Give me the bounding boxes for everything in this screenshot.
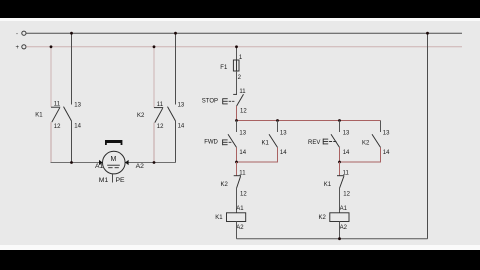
coil K2 [330, 213, 349, 222]
label FWD with actuator [204, 139, 233, 145]
svg-text:K1: K1 [215, 215, 223, 221]
svg-text:14: 14 [239, 150, 246, 156]
wire: minus bus to K2 NO contact [175, 33, 177, 104]
wire: coil K1 to bottom return bus [236, 222, 238, 239]
svg-text:11: 11 [54, 102, 61, 108]
svg-text:A1: A1 [236, 206, 244, 212]
junction on plus bus at K1 [50, 45, 53, 48]
junction bottom bus / coil K2 [338, 237, 341, 240]
wire: K1 interlock to coil K2 [339, 188, 341, 213]
wire: fuse to STOP button [236, 71, 238, 94]
junction on plus bus at K2 [153, 45, 156, 48]
contactor K2 power NC contact 11-12 [154, 102, 164, 130]
svg-text:STOP: STOP [202, 99, 218, 105]
positive supply terminal [16, 45, 27, 51]
coil K1 [227, 213, 246, 222]
wire: STOP to control bus [236, 106, 238, 121]
label REV with actuator [308, 139, 336, 146]
wire: K2 NO contact down [175, 121, 177, 163]
contactor K1 power NC contact 11-12 [51, 102, 61, 130]
svg-text:REV: REV [308, 140, 320, 146]
svg-text:K2: K2 [221, 182, 229, 188]
wire: plus bus to fuse F1 [236, 47, 238, 60]
wire: K1 aux down and left to FWD node [237, 148, 278, 163]
wire: K1 NC contact to motor A1 line [50, 122, 52, 162]
svg-text:K1: K1 [35, 113, 43, 119]
svg-text:12: 12 [240, 108, 247, 114]
svg-text:13: 13 [343, 130, 350, 136]
wire: motor A1 horizontal [51, 162, 102, 164]
svg-text:K1: K1 [324, 182, 332, 188]
motor M1 [103, 151, 126, 174]
top letterbox bar [0, 0, 480, 18]
svg-text:A2: A2 [340, 225, 348, 231]
K2 interlock NC contact 11-12 [234, 171, 248, 198]
svg-text:-: - [16, 32, 18, 38]
svg-text:K1: K1 [262, 140, 270, 146]
contactor K2 power NO contact 13-14 [168, 102, 185, 129]
junction FWD/K1aux node [235, 161, 238, 164]
fuse F1 [233, 60, 239, 71]
wire: REV to lower node [339, 148, 341, 163]
junction control bus / K1 aux [276, 119, 279, 122]
svg-text:FWD: FWD [204, 140, 218, 146]
wire: K2 interlock to coil K1 [236, 188, 238, 213]
junction A2/K2-NC [153, 161, 156, 164]
K1 interlock NC contact 11-12 [337, 171, 351, 198]
svg-text:PE: PE [116, 177, 126, 184]
svg-text:14: 14 [74, 124, 81, 130]
positive bus wire [26, 46, 462, 48]
svg-text:K2: K2 [137, 113, 145, 119]
K1 aux NO contact 13-14 [269, 121, 287, 156]
svg-text:14: 14 [280, 150, 287, 156]
svg-text:A1: A1 [340, 206, 348, 212]
junction on plus bus at control column [235, 45, 238, 48]
K2 aux NO contact 13-14 [372, 121, 390, 156]
bottom letterbox bar [0, 250, 480, 270]
svg-text:M1: M1 [99, 177, 109, 184]
svg-text:14: 14 [178, 124, 185, 130]
FWD pushbutton NO 13-14 [228, 121, 247, 156]
wire: REV node to K1 interlock [339, 162, 341, 176]
svg-text:11: 11 [157, 102, 164, 108]
wire: K2 NC contact to motor A2 line [153, 123, 155, 163]
svg-text:+: + [16, 45, 20, 51]
junction REV/K2aux node [338, 161, 341, 164]
junction control bus / STOP [235, 119, 238, 122]
wire: K1 NO contact to motor A1 line [71, 121, 73, 163]
terminal arrow A2 [125, 160, 129, 165]
svg-text:12: 12 [157, 124, 164, 130]
junction control bus / REV [338, 119, 341, 122]
svg-text:12: 12 [240, 192, 247, 198]
svg-text:11: 11 [343, 171, 350, 177]
wire: minus bus to K1 NO contact [71, 33, 73, 104]
svg-text:12: 12 [343, 192, 350, 198]
junction on minus bus at K2 [174, 32, 177, 35]
terminal arrow A1 [99, 160, 103, 165]
control bus [237, 120, 381, 122]
junction on minus bus at K1 [70, 32, 73, 35]
svg-text:13: 13 [178, 102, 185, 108]
REV pushbutton NO 13-14 [331, 121, 350, 156]
svg-text:13: 13 [74, 102, 81, 108]
wire: plus bus to K2 NC contact [153, 47, 155, 108]
junction minus bus / return wire [426, 32, 429, 35]
negative supply terminal [16, 31, 26, 37]
wire: plus bus to K1 NC contact [50, 47, 52, 107]
svg-text:A2: A2 [236, 225, 244, 231]
svg-text:11: 11 [239, 89, 246, 95]
motor brush bar [105, 140, 122, 145]
negative bus wire [26, 32, 462, 34]
wire: coil K2 to bottom return bus [339, 222, 341, 239]
STOP pushbutton NC 11-12 [233, 89, 247, 114]
svg-text:14: 14 [343, 150, 350, 156]
wire: FWD node to K2 interlock [236, 162, 238, 176]
wire: K2 aux down and left to REV node [340, 148, 381, 163]
svg-text:11: 11 [239, 171, 246, 177]
svg-text:M: M [111, 156, 117, 163]
wire: motor A2 horizontal [126, 162, 176, 164]
svg-text:F1: F1 [220, 65, 228, 71]
svg-text:13: 13 [383, 130, 390, 136]
bottom return bus [237, 238, 428, 240]
return wire up to minus bus [427, 33, 429, 239]
svg-text:13: 13 [239, 130, 246, 136]
svg-text:14: 14 [383, 150, 390, 156]
svg-text:A2: A2 [136, 163, 145, 170]
svg-text:K2: K2 [319, 215, 327, 221]
svg-text:K2: K2 [362, 140, 370, 146]
PE stub wire [112, 174, 114, 183]
junction A1/K1-NO [70, 161, 73, 164]
svg-text:13: 13 [280, 130, 287, 136]
svg-text:12: 12 [54, 124, 61, 130]
contactor K1 power NO contact 13-14 [64, 102, 82, 129]
label STOP with actuator [202, 98, 235, 104]
wire: FWD to lower node [236, 148, 238, 163]
